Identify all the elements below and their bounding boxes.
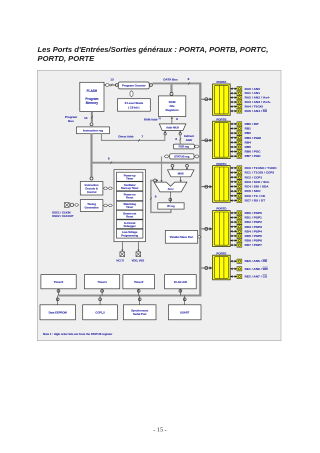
svg-text:RB7 / PGD: RB7 / PGD [245, 154, 262, 158]
connector timing-osc b [108, 204, 112, 207]
port PORTE box [213, 255, 231, 280]
svg-text:RAM Addr: RAM Addr [144, 117, 158, 121]
svg-text:MCLR: MCLR [116, 258, 124, 262]
peripheral Timer1 [84, 275, 119, 289]
svg-text:Reset: Reset [126, 214, 133, 218]
wire: ram addr [171, 119, 173, 124]
slash marker indirect addr [179, 138, 181, 141]
connector osc [75, 204, 79, 207]
port PORTB pin RB3 [230, 137, 237, 139]
wire: w reg feedback [151, 180, 171, 212]
peripheral Synchronous [123, 305, 156, 320]
port PORTD pin RD5 [230, 235, 237, 237]
svg-text:8 Level Stack: 8 Level Stack [125, 101, 144, 105]
port PORTC pin RC4 [230, 186, 237, 188]
slash marker program bus [91, 116, 93, 119]
svg-text:Program Counter: Program Counter [122, 84, 147, 88]
port PORTB pin RB1 [230, 128, 237, 130]
reset block row In-Circuit [117, 220, 143, 229]
svg-text:Debugger: Debugger [124, 224, 136, 228]
wire: mux in left [172, 167, 174, 168]
peripheral USART [168, 305, 201, 320]
svg-text:PORTD: PORTD [216, 207, 226, 211]
arrow: mclr [121, 250, 123, 252]
svg-text:Timer: Timer [126, 205, 133, 209]
mclr pin symbol [120, 252, 125, 257]
svg-text:RD4 / PSP4: RD4 / PSP4 [245, 229, 262, 233]
fsr register [173, 144, 194, 149]
wire: mux in right [186, 167, 188, 168]
node: w reg top [169, 198, 172, 201]
svg-text:Memory: Memory [86, 101, 98, 105]
wire: instruction reg to decode vertical [90, 134, 92, 177]
svg-text:RC1 / T1OSI / CCP2: RC1 / T1OSI / CCP2 [245, 171, 275, 175]
flash program memory [80, 82, 104, 111]
svg-text:Timer: Timer [126, 176, 133, 180]
svg-text:Control: Control [87, 190, 97, 194]
svg-text:Instruction: Instruction [85, 183, 99, 187]
status register [170, 154, 194, 159]
port PORTE pin RE0 [230, 260, 237, 262]
node: below addr mux left [164, 133, 166, 135]
port PORTA pin RA5 [230, 110, 237, 112]
svg-text:Les Ports d'Entrées/Sorties gé: Les Ports d'Entrées/Sorties généraux : P… [38, 45, 269, 54]
svg-text:10-bit A/D: 10-bit A/D [174, 280, 187, 284]
addr mux U:AMUX [159, 124, 186, 130]
connector psp-bus [197, 236, 201, 239]
wire: alu to w reg [169, 192, 171, 203]
arrow: feedback into alu [157, 179, 159, 181]
connector arrow flash-pc [105, 84, 109, 87]
peripheral Data EEPROM [40, 305, 75, 320]
arrow: ram addr up [171, 117, 173, 119]
node: feedback top [154, 179, 157, 182]
node: pc right connector [150, 84, 153, 87]
svg-text:RC5 / SDO: RC5 / SDO [245, 189, 262, 193]
program counter U:PC [118, 82, 149, 89]
connector decode-osc b [108, 187, 112, 190]
svg-text:STATUS reg: STATUS reg [174, 155, 190, 159]
svg-text:( 13-bit ): ( 13-bit ) [128, 105, 139, 109]
port PORTD box [213, 211, 231, 247]
arrow: mux in right [186, 168, 188, 170]
timing generation [80, 200, 103, 212]
svg-text:RA5 / AN4 / SS: RA5 / AN4 / SS [245, 109, 267, 113]
reset block row Low-Voltage [117, 229, 143, 238]
wire: flash to program counter bus [104, 84, 116, 86]
port PORTD pin RD1 [230, 217, 237, 219]
wire: literal bus horizontal [92, 162, 200, 164]
svg-text:Parallel Slave Port: Parallel Slave Port [170, 235, 194, 239]
svg-text:RA4 / T0CKI: RA4 / T0CKI [245, 105, 263, 109]
svg-text:Timer2: Timer2 [134, 280, 144, 284]
wire: mux out [180, 177, 182, 181]
port PORTA pin RA0 [230, 88, 237, 90]
svg-text:RB1: RB1 [245, 127, 252, 131]
svg-text:Instruction reg: Instruction reg [83, 129, 103, 133]
figure frame [37, 70, 281, 340]
port PORTC pin RC2 [230, 176, 237, 178]
svg-text:OSC2 / CLKOUT: OSC2 / CLKOUT [52, 214, 74, 218]
wire: CCP1,2 to bus [99, 296, 101, 305]
clock input symbol [65, 203, 70, 208]
reset block row Oscillator [117, 182, 143, 191]
node: mux in left [171, 164, 174, 167]
reset block row Power-on [117, 191, 143, 200]
node: pc left connector [115, 84, 118, 87]
port PORTD pin RD7 [230, 244, 237, 246]
svg-text:RB5: RB5 [245, 145, 252, 149]
svg-text:13: 13 [110, 78, 114, 82]
svg-text:Direct Addr: Direct Addr [118, 135, 134, 139]
wire: bus to PORTD [201, 228, 209, 230]
svg-text:RC6 / TX / CK: RC6 / TX / CK [245, 194, 266, 198]
instruction register [77, 127, 110, 134]
port PORTD inner register box [214, 212, 228, 245]
port PORTC pin RC7 [230, 200, 237, 202]
wire: program bus vertical [91, 111, 93, 122]
svg-text:RC2 / CCP1: RC2 / CCP1 [245, 175, 263, 179]
port PORTD pin RD0 [230, 212, 237, 214]
port PORTA inner register box [214, 85, 228, 114]
wire: status to alu vertical [161, 156, 163, 180]
svg-text:FLASH: FLASH [87, 89, 98, 93]
port PORTC pin RC6 [230, 195, 237, 197]
node: instruction reg top connector [90, 123, 93, 126]
svg-text:Programming: Programming [121, 233, 138, 237]
svg-text:Serial Port: Serial Port [133, 312, 147, 316]
svg-text:RA2 / AN2 / Vref-: RA2 / AN2 / Vref- [245, 96, 270, 100]
slash marker data bus [188, 82, 190, 85]
port PORTE pin RE2 [230, 276, 237, 278]
mux U:MUX [168, 170, 195, 177]
svg-text:CCP1,2: CCP1,2 [95, 310, 105, 314]
wire: indirect addr [179, 135, 181, 144]
instruction decode and control [80, 182, 103, 196]
svg-text:RC4 / SDI / SDA: RC4 / SDI / SDA [245, 185, 270, 189]
wire: direct addr [102, 134, 165, 141]
svg-text:RC7 / RX / DT: RC7 / RX / DT [245, 199, 266, 203]
port PORTD pin RD3 [230, 226, 237, 228]
svg-text:RD2 / PSP2: RD2 / PSP2 [245, 220, 262, 224]
wire: data bus branch to RAM [170, 84, 172, 92]
svg-text:Data EEPROM: Data EEPROM [49, 310, 68, 314]
arrow: vdd [137, 250, 139, 252]
connector status-bus right [195, 155, 200, 158]
svg-text:Addr MUX: Addr MUX [166, 125, 179, 129]
svg-text:W reg: W reg [167, 204, 175, 208]
slash marker direct addr [138, 139, 140, 142]
svg-text:Bus: Bus [68, 119, 74, 123]
port PORTB pin RB7 [230, 155, 237, 157]
connector decode-osc a [103, 187, 107, 190]
svg-text:V​DD, V​SS: V​DD, V​SS [132, 258, 145, 262]
arrow: direct addr into addr mux [164, 131, 166, 133]
wire: bus to PORTA [201, 98, 209, 100]
port PORTB box [213, 121, 231, 158]
wire: 10-bit A/D to bus [179, 289, 181, 296]
svg-text:RD1 / PSP1: RD1 / PSP1 [245, 216, 262, 220]
port PORTE inner register box [214, 257, 228, 279]
port PORTB pin RB4 [230, 141, 237, 143]
svg-text:RB4: RB4 [245, 140, 252, 144]
svg-text:Timing: Timing [87, 202, 96, 206]
node: below addr mux right [179, 133, 181, 135]
svg-text:RB3 / PGM: RB3 / PGM [245, 136, 262, 140]
node: ram top connector [170, 92, 173, 95]
port PORTE pin RE1 [230, 268, 237, 270]
peripheral CCP1,2 [83, 305, 118, 320]
wire: bus to PORTB [201, 139, 209, 141]
connector pc-stack [130, 91, 133, 97]
arrow: mux out into alu [180, 180, 182, 182]
svg-text:RD3 / PSP3: RD3 / PSP3 [245, 225, 262, 229]
node: osc circle [70, 203, 73, 206]
reset block outer box [114, 170, 146, 242]
svg-text:ALU: ALU [168, 187, 174, 191]
svg-text:PORTC: PORTC [216, 162, 227, 166]
svg-text:RA0 / AN0: RA0 / AN0 [245, 87, 261, 91]
wire: Timer2 to bus [138, 289, 140, 296]
arrow: indirect addr into addr mux [179, 131, 181, 133]
svg-text:- 15 -: - 15 - [153, 427, 166, 434]
port PORTB pin RB2 [230, 132, 237, 134]
svg-text:(1): (1) [159, 118, 162, 120]
port PORTC pin RC0 [230, 167, 237, 169]
wire: bus to PORTE [201, 267, 209, 269]
port PORTA pin RA4 [230, 106, 237, 108]
wire: Timer0 to bus [58, 289, 60, 296]
svg-text:RA3 / AN3 / Vref+: RA3 / AN3 / Vref+ [245, 100, 271, 104]
svg-text:USART: USART [180, 310, 190, 314]
svg-text:Registers: Registers [166, 108, 180, 112]
port PORTB inner register box [214, 123, 228, 158]
svg-text:RE0 / AN5 / RD: RE0 / AN5 / RD [245, 259, 268, 263]
svg-text:RD0 / PSP0: RD0 / PSP0 [245, 211, 262, 215]
port PORTD pin RD6 [230, 240, 237, 242]
connector fsr-bus [195, 145, 200, 148]
port PORTC box [213, 166, 231, 203]
svg-text:RC3 / SCK / SCL: RC3 / SCK / SCL [245, 180, 270, 184]
svg-text:FSR reg: FSR reg [179, 145, 190, 149]
wire: Synchronous to bus [139, 296, 141, 305]
wire: bus to PORTC [201, 186, 209, 188]
svg-text:MUX: MUX [178, 172, 184, 176]
port PORTC inner register box [214, 167, 228, 201]
ram file registers [159, 96, 186, 117]
svg-text:Synchronous: Synchronous [131, 309, 149, 313]
wire: DATA bus vertical right [199, 83, 201, 296]
svg-text:Addr: Addr [186, 138, 193, 142]
peripheral Timer2 [123, 275, 155, 289]
port PORTB pin RB0 [230, 123, 237, 125]
port PORTC pin RC3 [230, 181, 237, 183]
svg-text:Note 1 : High order bits are f: Note 1 : High order bits are from the ST… [43, 332, 113, 336]
connector timing-osc a [103, 204, 107, 207]
node: decode top connector [90, 177, 93, 180]
arrow: mux in left [171, 168, 173, 170]
port PORTD pin RD4 [230, 230, 237, 232]
svg-text:PORTA: PORTA [216, 80, 227, 84]
svg-text:Decode &: Decode & [85, 187, 97, 191]
peripheral Timer0 [41, 275, 76, 289]
port PORTC pin RC1 [230, 172, 237, 174]
slash marker feedback [150, 198, 152, 201]
svg-text:DATA Bus: DATA Bus [163, 78, 178, 82]
wire: Timer1 to bus [101, 289, 103, 296]
parallel slave port [165, 231, 197, 244]
svg-text:Timer0: Timer0 [54, 280, 64, 284]
slash marker literal bus [110, 161, 112, 164]
svg-text:PORTD, PORTE: PORTD, PORTE [38, 54, 96, 63]
wire: Data EEPROM to bus [57, 296, 59, 305]
arrow: into alu top left [160, 180, 162, 182]
wire: USART to bus [184, 296, 186, 305]
wire: vdd down [137, 242, 139, 250]
connector status left [164, 155, 169, 158]
port PORTB pin RB5 [230, 146, 237, 148]
port PORTB pin RB6 [230, 151, 237, 153]
svg-text:Start-up Timer: Start-up Timer [121, 186, 139, 190]
svg-text:RB2: RB2 [245, 131, 252, 135]
port PORTA pin RA1 [230, 92, 237, 94]
wire: DATA bus horizontal top [152, 82, 201, 84]
peripheral 10-bit A/D [165, 275, 197, 289]
svg-text:Generation: Generation [85, 206, 100, 210]
port PORTC pin RC5 [230, 190, 237, 192]
port PORTA pin RA2 [230, 97, 237, 99]
reset block row Brown-out [117, 210, 143, 219]
svg-text:RD7 / PSP7: RD7 / PSP7 [245, 243, 262, 247]
port PORTA pin RA3 [230, 101, 237, 103]
w register [158, 203, 184, 209]
svg-text:RD6 / PSP6: RD6 / PSP6 [245, 239, 262, 243]
svg-text:RB6 / PGC: RB6 / PGC [245, 150, 262, 154]
port PORTD pin RD2 [230, 221, 237, 223]
svg-text:RE2 / AN7 / CS: RE2 / AN7 / CS [245, 275, 267, 279]
svg-text:14: 14 [84, 116, 88, 120]
svg-text:RE1 / AN6 / WR: RE1 / AN6 / WR [245, 267, 269, 271]
wire: peripheral bus [59, 294, 202, 296]
svg-text:Reset: Reset [126, 196, 133, 200]
reset block row Watchdog [117, 201, 143, 210]
svg-text:RD5 / PSP5: RD5 / PSP5 [245, 234, 262, 238]
wire: mclr down [121, 242, 123, 250]
svg-text:Timer1: Timer1 [97, 280, 107, 284]
svg-text:RC0 / T1OSO / T1CKI: RC0 / T1OSO / T1CKI [245, 166, 277, 170]
svg-text:RA1 / AN1: RA1 / AN1 [245, 91, 261, 95]
node: mux in right [186, 164, 189, 167]
reset block row Power-up [117, 172, 143, 181]
alu U:ALU [154, 182, 187, 192]
vdd vss pin symbol [136, 252, 141, 257]
svg-text:RB0 / INT: RB0 / INT [245, 122, 259, 126]
port PORTA box [213, 84, 231, 115]
slash marker 13-bit bus [111, 84, 113, 87]
stack U:STACK [118, 99, 151, 112]
